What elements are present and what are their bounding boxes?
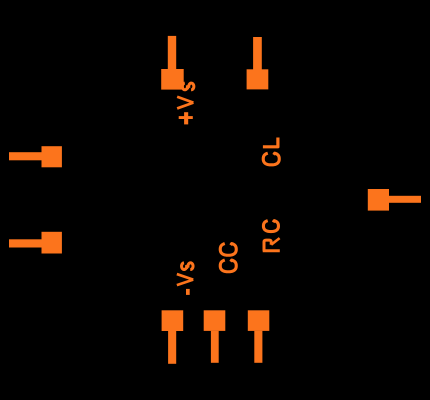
- pin 5 RC lead: [254, 331, 262, 363]
- pin 6 out lead: [389, 196, 421, 203]
- label CC glyph C: [220, 244, 236, 256]
- pin 3 -Vs lead: [168, 331, 176, 364]
- label -Vs glyph s: [182, 263, 193, 270]
- pin 2 pad: [42, 232, 62, 254]
- label CC glyph C: [220, 260, 236, 272]
- label +Vs glyph V: [177, 97, 193, 109]
- label RC glyph C: [263, 221, 278, 232]
- label -Vs glyph V: [177, 274, 193, 285]
- pin 7 CL lead: [253, 37, 262, 70]
- label -Vs glyph -: [186, 289, 190, 295]
- pin 4 CC lead: [211, 331, 219, 363]
- pin 4 CC pad: [204, 310, 226, 331]
- pin 1 pad: [42, 146, 62, 167]
- pin 8 +Vs lead: [168, 36, 176, 70]
- pin 3 -Vs pad: [162, 310, 184, 331]
- pin 6 out pad: [368, 189, 389, 211]
- label +Vs glyph +: [179, 112, 193, 124]
- label CL glyph C: [263, 153, 279, 165]
- label CL glyph L: [263, 138, 278, 147]
- pin 5 RC pad: [248, 310, 269, 331]
- label +Vs glyph s: [182, 83, 193, 90]
- pin 8 +Vs pad: [161, 69, 184, 90]
- label RC glyph R: [263, 238, 280, 251]
- pin 1 lead: [9, 152, 42, 160]
- pin 2 lead: [9, 239, 42, 247]
- pin 7 CL pad: [247, 69, 269, 89]
